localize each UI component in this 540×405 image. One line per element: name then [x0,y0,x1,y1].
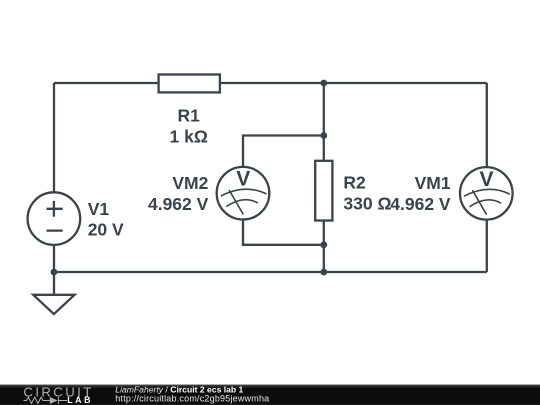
wire top right (R1 right to right rail) [220,82,487,84]
footer bar [0,385,540,405]
resistor R2 [315,161,332,221]
wire R2 branch lower (R2 bottom to bottom wire) [323,221,325,273]
wire VM2 top branch [243,136,324,168]
junction V1 / ground / bottom rail [51,269,58,276]
wire VM2 bottom branch [243,220,324,245]
wire top left (V1 top to R1 left) [54,82,159,84]
svg-text:330 Ω: 330 Ω [343,194,391,214]
svg-text:http://circuitlab.com/c2gb95je: http://circuitlab.com/c2gb95jewwmha [115,393,269,403]
wire ground lead [53,272,55,294]
wire right rail upper (top wire down to VM1) [486,83,488,167]
svg-text:1 kΩ: 1 kΩ [170,126,208,146]
svg-text:V: V [236,168,250,191]
svg-text:4.962 V: 4.962 V [148,194,209,214]
voltmeter VM1 [460,167,513,220]
wire bottom rail [54,271,487,273]
wire left rail upper (top wire down to V1) [53,83,55,192]
junction R2 branch / bottom rail [320,269,327,276]
junction VM2 bottom branch [320,241,327,248]
voltage source V1 [28,192,81,245]
resistor R1 [159,75,220,93]
wire left rail lower (V1 bottom to bottom wire) [53,245,55,272]
wire right rail lower (VM1 bottom to bottom wire) [486,220,488,272]
logo resistor zigzag and diode [24,397,68,404]
svg-text:VM1: VM1 [415,173,451,193]
junction VM2 top branch [320,132,327,139]
svg-text:V1: V1 [88,199,110,219]
voltmeter VM2 [217,167,270,220]
svg-text:VM2: VM2 [172,173,208,193]
svg-text:20 V: 20 V [88,220,124,240]
svg-text:LAB: LAB [67,395,93,405]
wire R2 branch upper (top junction down to R2) [323,83,325,161]
svg-text:R2: R2 [343,173,366,193]
svg-text:R1: R1 [178,105,201,125]
svg-text:V: V [479,168,493,191]
ground [33,295,74,314]
svg-text:4.962 V: 4.962 V [390,194,451,214]
junction top (R2 branch / top rail) [320,80,327,87]
